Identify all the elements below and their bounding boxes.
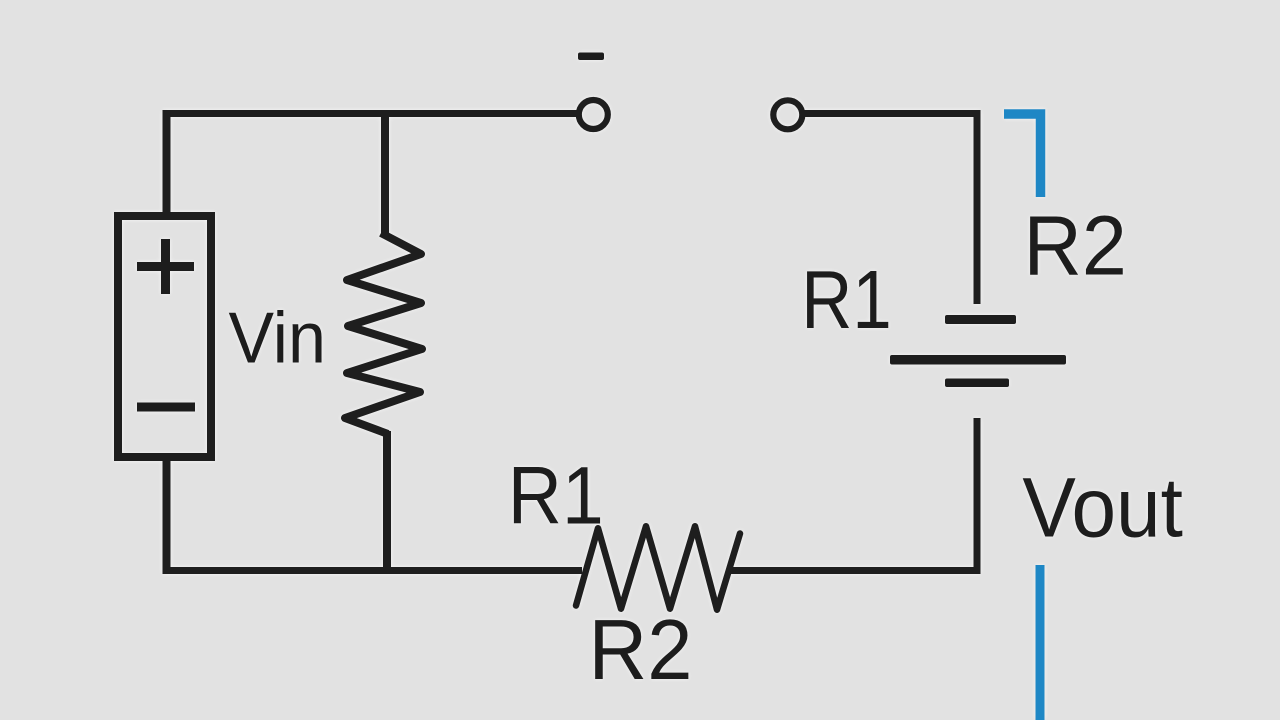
svg-text:R1: R1	[508, 451, 604, 542]
terminal node right (open circle)	[773, 100, 802, 129]
svg-text:R2: R2	[589, 603, 693, 698]
wire: bottom horizontal right segment	[731, 567, 981, 574]
blue wire stub R2 (top right elbow)	[1004, 114, 1041, 197]
svg-text:R1: R1	[801, 253, 891, 346]
svg-text:Vout: Vout	[1022, 461, 1183, 555]
wire: bottom horizontal left segment	[163, 567, 582, 574]
resistor R1/R2 (bottom horizontal)	[576, 526, 740, 610]
battery (right) top short plate	[945, 315, 1016, 324]
battery Vin body	[118, 216, 211, 457]
wire: battery bottom leg	[163, 458, 171, 574]
polarity minus label above left terminal	[578, 53, 604, 61]
wire: top horizontal (battery top to left terminal)	[163, 110, 577, 117]
resistor (vertical, across Vin)	[345, 233, 422, 434]
wire: middle vertical (top wire down to resistor)	[381, 110, 389, 236]
battery Vin plus mark	[137, 239, 194, 294]
terminal node left (open circle)	[579, 100, 608, 129]
wire: left vertical leg (top wire down to battery +)	[163, 110, 171, 214]
svg-text:R2: R2	[1024, 199, 1127, 293]
blue wire Vout (bottom right, to bottom edge)	[1036, 565, 1045, 720]
wire: middle vertical lower (resistor to bottom wire)	[383, 431, 391, 574]
battery (right) bottom short plate	[945, 379, 1009, 388]
battery (right) long plate	[890, 355, 1066, 365]
wire: right horizontal (right terminal to right branch)	[804, 110, 981, 117]
svg-text:Vin: Vin	[229, 298, 326, 379]
battery Vin minus mark	[137, 403, 195, 412]
wire: right vertical lower	[974, 418, 981, 574]
wire: right vertical upper	[974, 110, 981, 304]
